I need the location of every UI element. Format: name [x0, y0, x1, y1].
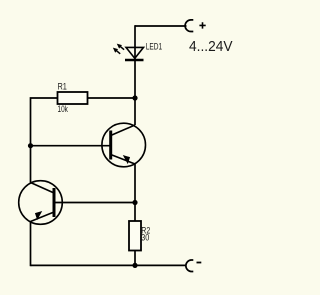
terminal plus — [185, 20, 206, 32]
node junction Q1 emitter / Q2 base / R2 — [132, 200, 137, 205]
terminal minus — [186, 260, 201, 272]
transistor Q1 (NPN, base left) — [102, 123, 146, 167]
node junction R2 bottom / bottom rail — [132, 263, 137, 268]
wire top horizontal from LED rail to plus terminal — [135, 25, 187, 27]
wire Q1 base from left rail — [31, 145, 111, 147]
LED LED1 — [114, 41, 162, 60]
wire left rail lower: Q2 emitter down to bottom rail — [30, 222, 32, 266]
svg-text:4...24V: 4...24V — [189, 38, 233, 55]
wire R1 right lead to rail junction — [88, 97, 136, 99]
transistor Q2 (NPN, base right, mirrored) — [19, 181, 63, 225]
wire bottom horizontal rail to minus terminal — [31, 264, 187, 266]
wire Q2 base to R2 top node — [54, 202, 135, 204]
wire Q1 emitter down to R2 top node — [134, 164, 136, 203]
node junction left rail / Q1 base — [28, 143, 33, 148]
node junction R1/rail — [132, 95, 137, 100]
svg-text:30: 30 — [141, 233, 149, 243]
svg-text:10k: 10k — [58, 104, 69, 114]
wire R2 top node to R2 box — [134, 203, 136, 222]
svg-text:R1: R1 — [58, 82, 67, 92]
wire R2 box bottom to bottom rail — [134, 251, 136, 266]
wire left rail upper: R1 left lead corner down to Q2 collector — [31, 98, 58, 183]
resistor R2 — [129, 221, 150, 251]
resistor R1 — [58, 82, 88, 115]
wire main vertical rail: top corner through LED down to Q1 collector — [134, 25, 136, 125]
svg-text:LED1: LED1 — [146, 41, 162, 51]
